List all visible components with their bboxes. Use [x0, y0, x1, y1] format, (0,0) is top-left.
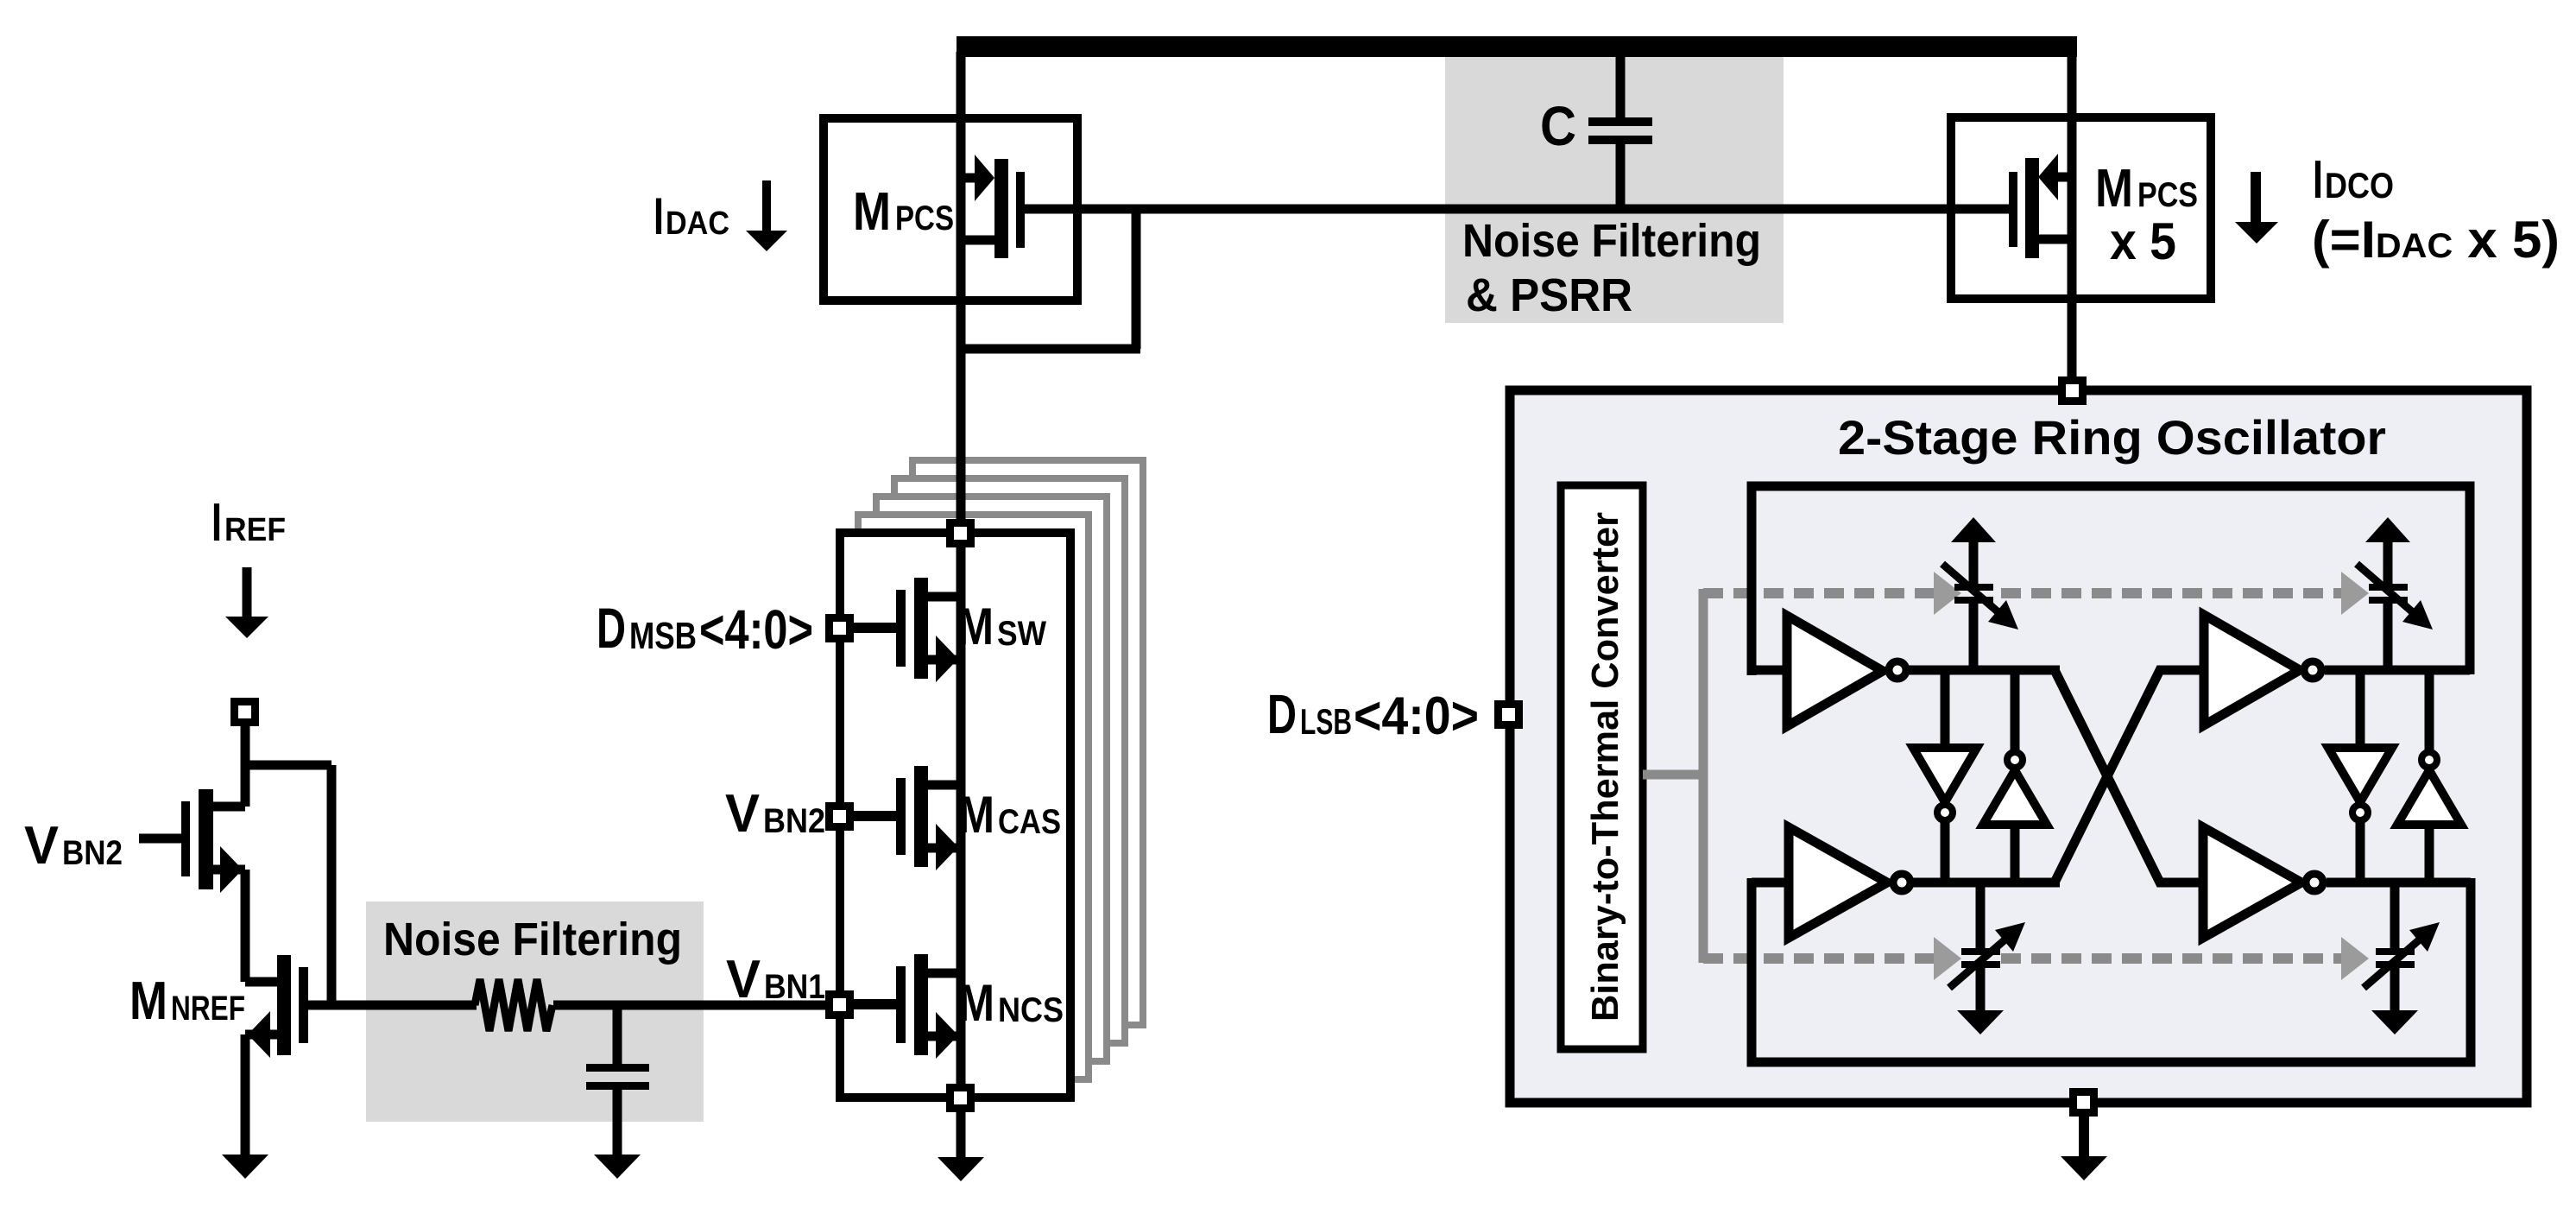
- transistor MPCS gate bar: [1016, 172, 1025, 248]
- svg-text:CAS: CAS: [998, 803, 1061, 841]
- svg-text:M: M: [853, 182, 891, 242]
- svg-text:NREF: NREF: [171, 990, 245, 1028]
- wire: latch left stub bottom-b: [2011, 824, 2020, 883]
- transistor box MPCS x5 (right): [1951, 117, 2211, 299]
- wire: inverter U4 output to feedback: [2327, 878, 2471, 888]
- arrow IDAC current direction: [762, 180, 771, 231]
- block: 2-Stage Ring Oscillator outer box: [1510, 390, 2527, 1103]
- node: ring oscillator ground terminal: [2069, 1088, 2098, 1117]
- varactor top-left capacitor: [1954, 584, 1993, 591]
- svg-text:& PSRR: & PSRR: [1466, 269, 1632, 321]
- svg-text:I: I: [212, 493, 222, 553]
- svg-text:PCS: PCS: [895, 199, 954, 237]
- gray highlight box: Noise Filtering & PSRR: [1445, 57, 1784, 323]
- node: DLSB input terminal: [1494, 700, 1523, 729]
- transistor MSW: [839, 623, 900, 633]
- inverter U1: [1787, 616, 1883, 726]
- node: DMSB gate input: [825, 614, 854, 642]
- svg-text:M: M: [129, 971, 167, 1031]
- svg-text:SW: SW: [997, 615, 1046, 653]
- wire: cross-couple diagonal (top-left to bottom-right): [2055, 670, 2203, 883]
- wire: MPCS x5 drain column from VDD bus down to ring oscillator: [2068, 52, 2077, 380]
- svg-text:I: I: [653, 187, 664, 245]
- svg-text:BN2: BN2: [62, 834, 123, 872]
- capacitor C bottom plate: [1588, 136, 1652, 144]
- resistor (noise filter): [475, 979, 552, 1031]
- transistor box MPCS (left): [824, 118, 1077, 301]
- ground of ring oscillator: [2079, 1117, 2089, 1157]
- svg-text:x 5: x 5: [2110, 212, 2176, 270]
- capacitor (noise filter): [613, 1005, 622, 1064]
- varactor bottom-right capacitor: [2390, 883, 2400, 948]
- svg-text:2-Stage Ring Oscillator: 2-Stage Ring Oscillator: [1838, 410, 2386, 465]
- svg-text:Noise Filtering: Noise Filtering: [383, 914, 682, 965]
- varactor bottom-left ground: [1957, 1010, 2004, 1034]
- wire: resistor to VBN1 node: [553, 1001, 830, 1010]
- node: IREF input terminal: [230, 698, 259, 726]
- svg-text:Noise Filtering: Noise Filtering: [1462, 215, 1761, 267]
- DAC cell shadow rectangles (x5 stack): [912, 460, 1143, 1025]
- wire: branch to MNREF gate (diode connection): [245, 761, 331, 770]
- VDD supply bus (thick): [957, 36, 2077, 57]
- wire: inverter U1 input: [1752, 666, 1787, 675]
- wire: MNREF source to ground: [241, 1034, 250, 1155]
- transistor MPCS source arrow: [975, 155, 994, 201]
- gray dashed control line (bottom): [1703, 953, 1934, 964]
- svg-text:NCS: NCS: [998, 991, 1064, 1029]
- latch inverter down (right): [2328, 748, 2392, 802]
- transistor MPCS x5 channel bar: [2025, 158, 2039, 258]
- gray control line bracket (vertical): [1699, 589, 1708, 963]
- transistor cascode (VBN2 gated): [139, 834, 186, 844]
- wire: latch right stub bottom-a: [2356, 821, 2365, 883]
- varactor top-left: VDD arrow: [1969, 540, 1979, 585]
- transistor MPCS x5 gate bar: [2009, 172, 2017, 247]
- svg-text:BN2: BN2: [763, 802, 825, 840]
- capacitor C top plate: [1588, 117, 1652, 126]
- wire: cross-couple diagonal (bottom-left to top-right): [2055, 670, 2204, 883]
- ground of noise filter capacitor: [594, 1155, 641, 1179]
- ground of MNREF: [222, 1155, 268, 1179]
- wire: latch left stub top-b: [2011, 670, 2020, 750]
- transistor MCAS: [839, 811, 900, 821]
- wire: U3 output node line: [1911, 878, 2060, 888]
- transistor MNCS: [839, 999, 900, 1009]
- gray dashed control line (top): [1703, 588, 1934, 598]
- node: DAC cell top (from MPCS): [946, 519, 975, 547]
- wire: diode-connect loop horizontal: [957, 345, 1140, 354]
- transistor MPCS (left PMOS) source lead: [961, 174, 978, 183]
- varactor bottom-right ground: [2371, 1010, 2418, 1034]
- wire: inverter U2 output to feedback: [2325, 666, 2470, 675]
- svg-text:REF: REF: [224, 512, 286, 548]
- svg-text:Binary-to-Thermal Converter: Binary-to-Thermal Converter: [1584, 512, 1626, 1022]
- svg-text:C: C: [1540, 95, 1576, 157]
- node: VBN1 gate input: [825, 990, 854, 1019]
- transistor MPCS channel bar: [994, 159, 1008, 258]
- varactor top-right capacitor: [2369, 584, 2408, 591]
- svg-text:PCS: PCS: [2137, 176, 2198, 214]
- wire: U1 output node line: [1909, 666, 2060, 675]
- svg-text:D: D: [1267, 683, 1297, 745]
- transistor MPCS drain lead: [961, 236, 994, 245]
- wire: bottom feedback rectangle: [1752, 878, 2471, 1062]
- block: Binary-to-Thermal Converter box: [1561, 485, 1643, 1049]
- wire: latch right stub bottom-b: [2425, 824, 2434, 883]
- svg-text:DAC: DAC: [666, 206, 729, 242]
- svg-text:M: M: [2095, 159, 2133, 218]
- svg-text:DCO: DCO: [2325, 165, 2394, 206]
- wire: latch right stub top-a: [2356, 670, 2365, 748]
- wire: latch left stub top-a: [1941, 670, 1950, 748]
- wire: inverter U3 input: [1752, 878, 1789, 888]
- gray control line from B2T converter (horizontal): [1643, 770, 1703, 780]
- arrow IREF input: [243, 567, 252, 618]
- DAC unit cell box: [840, 533, 1070, 1098]
- transistor MPCS x5 (right PMOS) source lead: [2055, 173, 2072, 182]
- transistor MPCS x5 drain lead: [2039, 235, 2072, 244]
- svg-text:V: V: [24, 816, 59, 876]
- varactor bottom-left capacitor: [1976, 883, 1986, 948]
- node: DAC cell bottom: [946, 1084, 975, 1112]
- svg-text:M: M: [958, 786, 994, 844]
- arrow IDCO current direction: [2251, 172, 2261, 224]
- svg-text:M: M: [958, 974, 994, 1032]
- transistor MPCS x5 source arrow: [2038, 154, 2058, 200]
- node: VBN2 gate input: [825, 802, 854, 831]
- svg-text:LSB: LSB: [1300, 701, 1352, 742]
- svg-text:D: D: [597, 596, 626, 660]
- inverter U2: [2204, 615, 2300, 725]
- svg-text:MSB: MSB: [629, 615, 697, 657]
- node: IDCO into ring oscillator: [2058, 376, 2087, 405]
- varactor top-right: VDD arrow: [2383, 540, 2393, 585]
- wire: latch right stub top-b: [2425, 670, 2434, 750]
- wire: node down to VBN2 cascode drain: [241, 726, 250, 807]
- svg-text:V: V: [725, 784, 760, 844]
- transistor MNREF (mirrored): [245, 977, 277, 987]
- gray highlight box: Noise Filtering (bias filter): [366, 902, 704, 1122]
- svg-text:M: M: [957, 598, 994, 655]
- svg-text:<4:0>: <4:0>: [699, 598, 813, 661]
- wire: cascode source to MNREF drain: [241, 870, 250, 982]
- inverter U4: [2203, 827, 2301, 938]
- inverter U3: [1789, 827, 1887, 938]
- wire: MPCS drain column from VDD bus down to DAC cell: [957, 52, 966, 521]
- svg-text:<4:0>: <4:0>: [1354, 686, 1479, 746]
- latch inverter up (left): [1983, 770, 2047, 825]
- latch inverter up (right): [2397, 770, 2461, 825]
- capacitor C top stem: [1616, 52, 1626, 117]
- wire: MNREF gate to VBN1 (left lead): [304, 1001, 477, 1010]
- wire: latch left stub bottom-a: [1941, 821, 1950, 883]
- capacitor C bottom stem: [1616, 144, 1626, 211]
- wire: top feedback rectangle: [1752, 486, 2470, 675]
- latch inverter down (left): [1913, 748, 1977, 802]
- ground of DAC cell: [957, 1112, 966, 1158]
- wire: diode-connect loop vertical: [1132, 205, 1141, 349]
- wire: DAC cell internal column: [957, 455, 966, 1098]
- svg-text:BN1: BN1: [764, 968, 825, 1006]
- svg-text:I: I: [2313, 150, 2323, 210]
- wire: gate bus from MPCS gate to MPCS x5 gate: [1020, 205, 2012, 214]
